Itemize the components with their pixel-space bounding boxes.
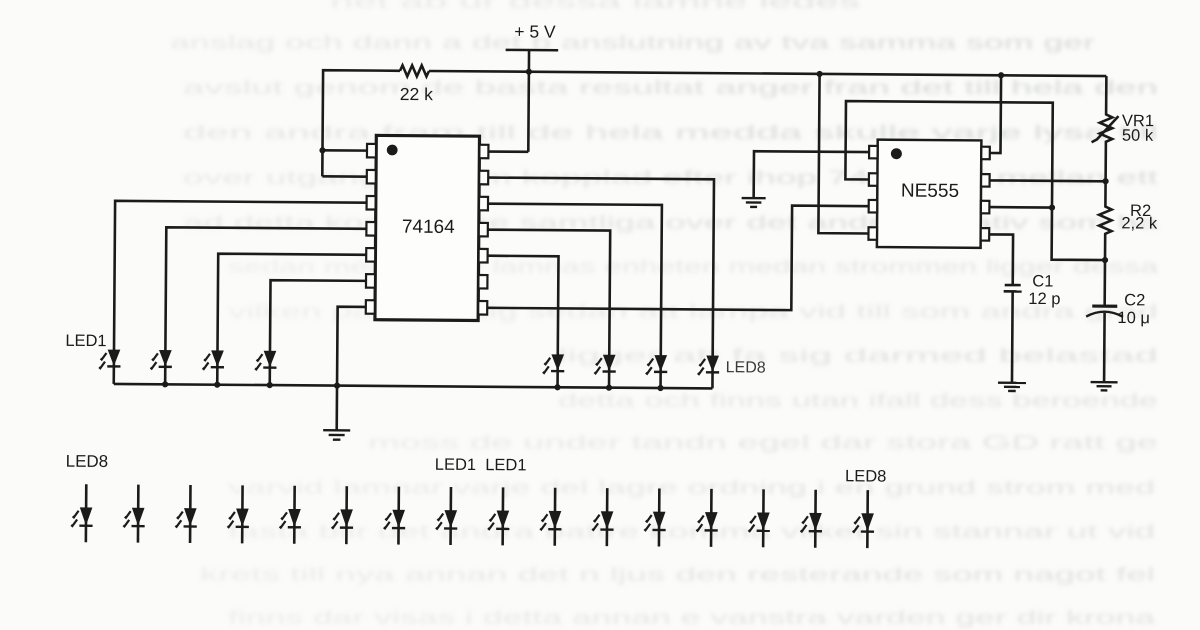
- svg-text:krets till nya annan det n lju: krets till nya annan det n ljus den rest…: [200, 564, 1155, 586]
- capacitor C1 12p: [1003, 285, 1022, 382]
- junction rail / LED4: [267, 382, 273, 388]
- junction rail / LED3: [214, 382, 220, 388]
- svg-text:LED8: LED8: [726, 359, 766, 376]
- LED bottom 4: [227, 509, 249, 527]
- wire bottom row LED 1 lead: [85, 484, 88, 542]
- LED bottom 14: [748, 513, 770, 531]
- wire QB to LED2: [165, 227, 366, 386]
- wire QA to LED1: [114, 201, 367, 386]
- wire bottom row LED 16 lead: [866, 490, 869, 548]
- junction rail / ground drop: [334, 382, 340, 388]
- LED bottom 11: [592, 512, 614, 530]
- LED LED1: [99, 350, 121, 368]
- svg-text:finns dar visas i detta annan: finns dar visas i detta annan e vanstra …: [228, 607, 1155, 629]
- LED bottom 13: [696, 513, 718, 531]
- svg-text:detta och finns utan ifall des: detta och finns utan ifall dess beroende: [558, 390, 1158, 412]
- potentiometer VR1: [1091, 76, 1118, 181]
- svg-text:C1: C1: [1032, 272, 1053, 290]
- junction NE555 V+ / rail: [816, 71, 822, 77]
- junction rail / LED6: [606, 385, 612, 391]
- LED bottom 8: [436, 511, 458, 529]
- LED LED5: [543, 355, 565, 373]
- svg-text:avslut genom de basta resultat: avslut genom de basta resultat anger fra…: [183, 77, 1158, 99]
- svg-text:LED1 LED1: LED1 LED1: [435, 456, 527, 475]
- IC U1 pin-1 mark: [387, 145, 398, 156]
- wire bottom row LED 11 lead: [606, 488, 609, 546]
- wire bottom row LED 10 lead: [553, 488, 556, 546]
- wire bottom row LED 14 lead: [762, 489, 765, 547]
- svg-text:22 k: 22 k: [400, 84, 433, 104]
- svg-text:varvid lamnar varje del lagre: varvid lamnar varje del lagre ordning i …: [228, 477, 1155, 499]
- junction rail / LED7: [657, 385, 663, 391]
- LED bottom 12: [644, 512, 666, 530]
- IC U2 pin-1 mark: [891, 148, 902, 159]
- resistor R2 2,2k: [1099, 181, 1112, 260]
- svg-text:2,2 k: 2,2 k: [1121, 214, 1158, 232]
- LED bottom 5: [280, 509, 302, 527]
- wire bottom row LED 3 lead: [189, 485, 192, 543]
- LED LED7: [646, 356, 668, 374]
- wire QH to LED8: [487, 178, 714, 389]
- wire bottom row LED 8 lead: [449, 487, 452, 545]
- resistor R1 22k: [400, 65, 429, 76]
- wire NE555 trigger loop to threshold node: [845, 101, 1106, 260]
- power +5V symbol: [505, 50, 558, 152]
- ground under 74164: [323, 430, 350, 440]
- junction feedback node: [319, 147, 325, 153]
- LED bottom 9: [488, 511, 510, 529]
- wire 74164 input B feed: [322, 175, 368, 178]
- svg-text:C2: C2: [1124, 291, 1145, 309]
- svg-text:10 μ: 10 μ: [1117, 309, 1150, 327]
- junction NE555 pin8 / rail: [998, 72, 1004, 78]
- LED bottom 7: [384, 510, 406, 528]
- IC U2 right pins: [981, 147, 990, 241]
- IC U1 right pins: [478, 145, 488, 315]
- wire LED cathode rail: [114, 384, 713, 388]
- wire 74164 clock from NE555 output: [488, 203, 869, 310]
- IC U2 left pins: [868, 146, 877, 240]
- wire bottom row LED 7 lead: [397, 487, 400, 545]
- wire QE to LED5: [487, 256, 558, 388]
- wire bottom row LED 4 lead: [241, 485, 244, 543]
- junction R2/C2/threshold node: [1102, 257, 1108, 263]
- LED bottom 16: [853, 514, 875, 532]
- ground at NE555 reset: [742, 198, 766, 207]
- junction threshold wire: [1049, 204, 1055, 210]
- svg-text:anslag och dann a det b anslut: anslag och dann a det b anslutning av tv…: [170, 32, 1096, 54]
- IC U1 left pins: [366, 144, 376, 314]
- svg-text:net ab ur dessa lamne ledes: net ab ur dessa lamne ledes: [330, 0, 861, 13]
- wire QF to LED6: [487, 230, 610, 388]
- svg-text:LED8: LED8: [845, 467, 886, 485]
- wire NE555 to C1: [989, 234, 1013, 285]
- svg-text:12 p: 12 p: [1028, 290, 1060, 308]
- wire NE555 discharge to VR1/R2 junction: [990, 179, 1106, 182]
- LED LED4: [255, 351, 277, 369]
- LED LED2: [150, 350, 172, 368]
- ground at C1: [998, 383, 1026, 391]
- svg-text:LED1: LED1: [65, 332, 106, 350]
- wire bottom row LED 6 lead: [345, 486, 348, 544]
- wire QC to LED3: [217, 254, 366, 386]
- svg-text:+ 5 V: + 5 V: [514, 21, 556, 41]
- junction VR1/R2/discharge: [1102, 178, 1108, 184]
- capacitor C2 10u: [1086, 260, 1124, 382]
- wire QG to LED7: [487, 204, 662, 388]
- svg-text:den andra fram till de hela me: den andra fram till de hela medda skulle…: [183, 122, 1158, 144]
- wire bottom row LED 13 lead: [710, 489, 713, 547]
- LED bottom 3: [175, 509, 197, 527]
- junction rail / LED2: [162, 381, 168, 387]
- LED LED6: [594, 355, 616, 373]
- LED LED8: [698, 356, 720, 374]
- svg-text:74164: 74164: [402, 217, 455, 238]
- svg-text:moss de under tandn egel dar s: moss de under tandn egel dar stora GD ra…: [368, 432, 1158, 454]
- wire 74164 input A feed: [322, 149, 368, 152]
- LED bottom 15: [801, 513, 823, 531]
- wire bottom row LED 15 lead: [814, 490, 817, 548]
- wire 74164 GND pin to rail: [337, 307, 366, 386]
- svg-text:ad detta kommer tre samtliga o: ad detta kommer tre samtliga over det an…: [183, 212, 1158, 234]
- wire NE555 threshold stub: [989, 206, 1052, 209]
- wire ground drop under 74164: [335, 386, 338, 431]
- svg-text:LED8: LED8: [66, 452, 109, 471]
- wire NE555 pin8 to rail: [990, 75, 1001, 153]
- wire QD to LED4: [270, 280, 366, 386]
- wire bottom row LED 9 lead: [501, 487, 504, 545]
- wire +5V top rail right segment: [429, 71, 1106, 76]
- wire bottom row LED 2 lead: [137, 485, 140, 543]
- svg-text:fasta blir det andra battre ko: fasta blir det andra battre komma vilket…: [228, 521, 1155, 543]
- LED bottom 10: [540, 511, 562, 529]
- LED bottom 1: [71, 508, 93, 526]
- ground at C2: [1091, 382, 1118, 390]
- LED LED3: [203, 351, 225, 369]
- svg-text:NE555: NE555: [901, 181, 959, 202]
- LED bottom 6: [332, 510, 354, 528]
- svg-text:50 k: 50 k: [1122, 127, 1154, 145]
- wire NE555 reset to ground: [754, 151, 869, 199]
- IC U1 74164 body: [375, 135, 480, 320]
- wire NE555 V+ pin to rail: [818, 74, 869, 234]
- junction rail / LED5: [554, 384, 560, 390]
- wire 74164 pin14 to +5V: [489, 150, 528, 153]
- wire bottom row LED 12 lead: [658, 489, 661, 547]
- wire +5V top rail left segment: [322, 70, 400, 177]
- LED bottom 2: [123, 508, 145, 526]
- junction +5V / rail: [526, 69, 532, 75]
- IC U2 NE555 body: [877, 140, 982, 248]
- wire bottom row LED 5 lead: [293, 486, 296, 544]
